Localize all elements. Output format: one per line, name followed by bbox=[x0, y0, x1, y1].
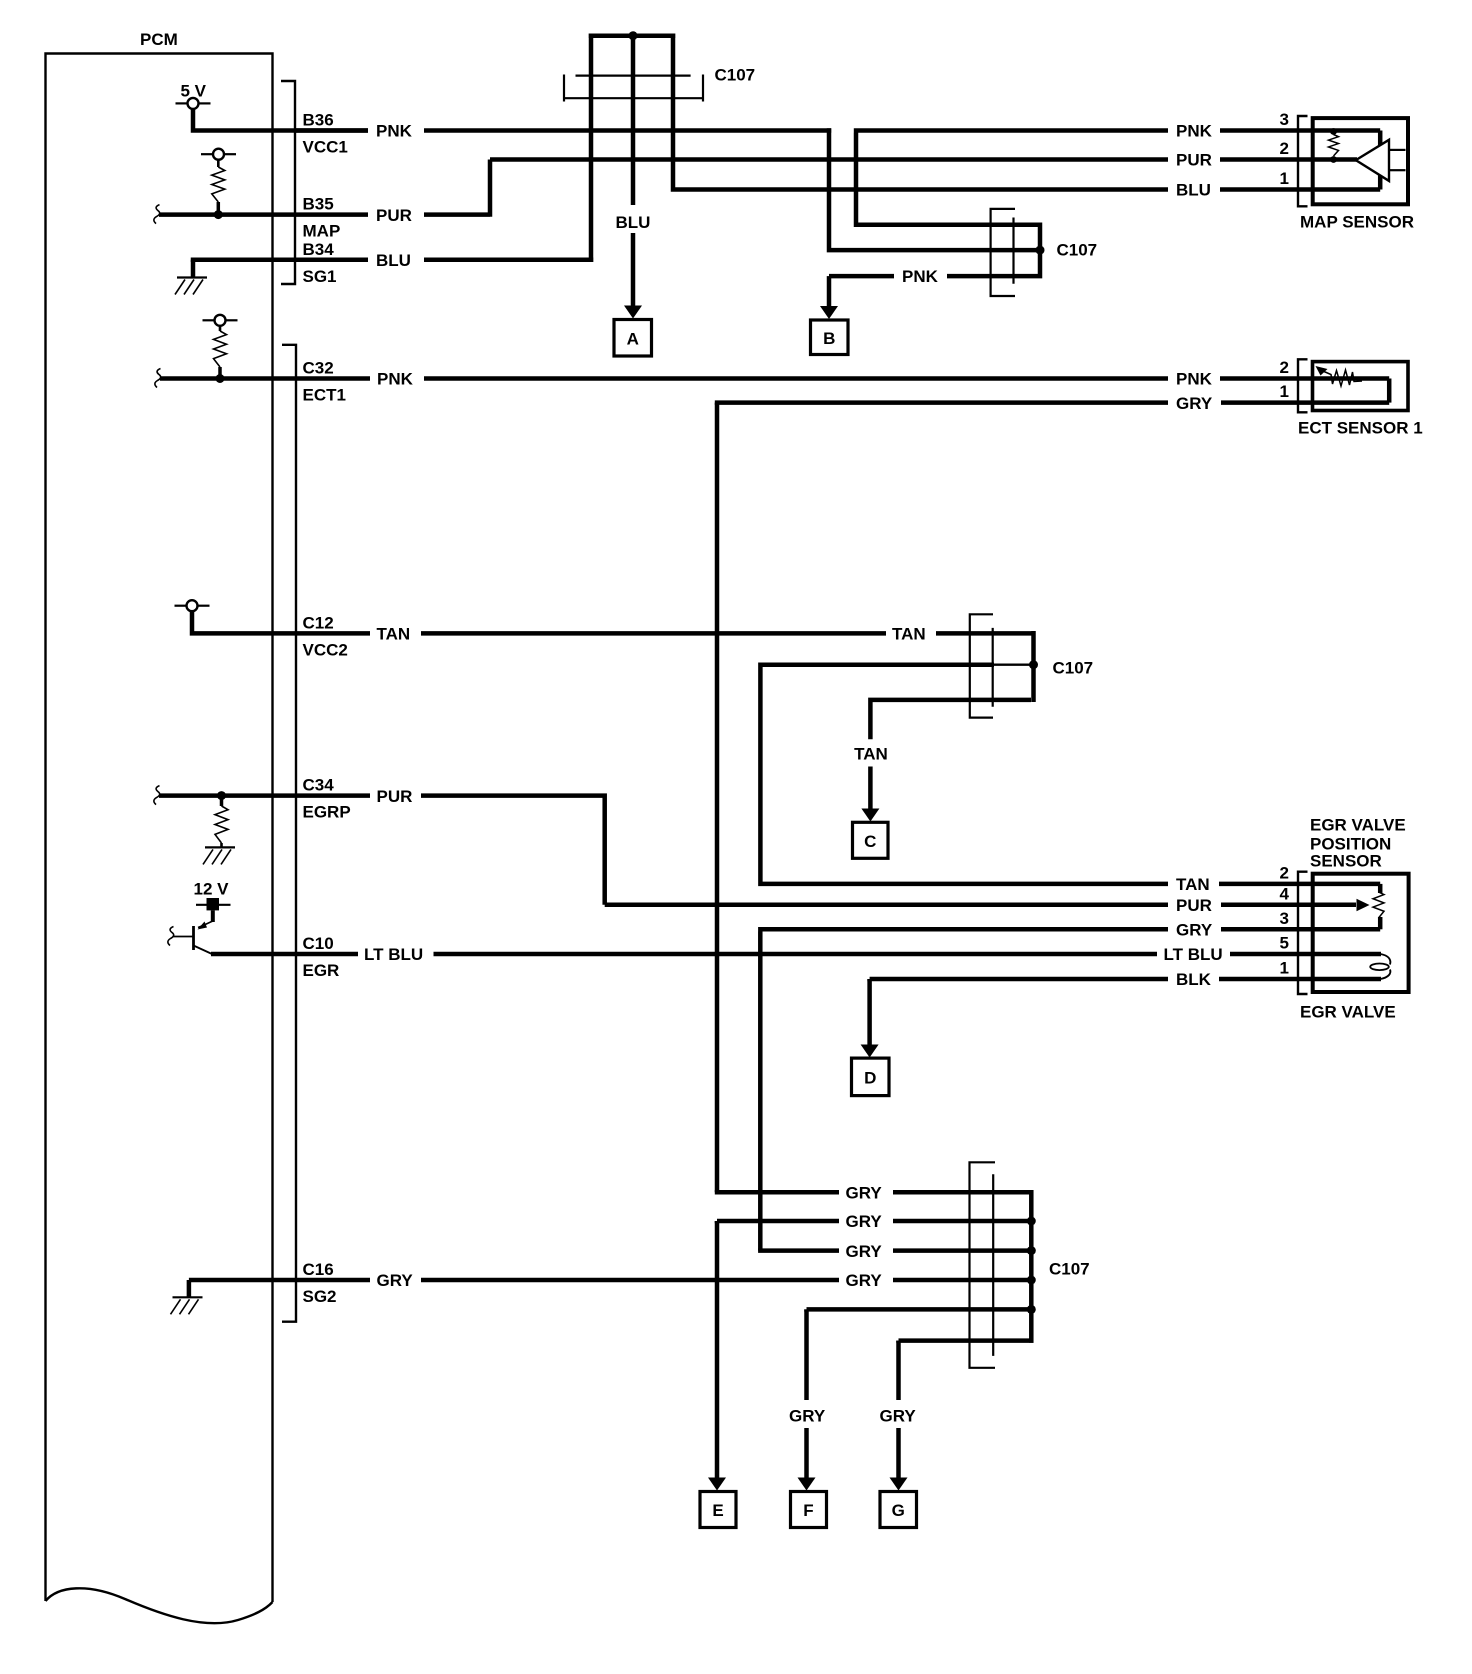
wire PNK splice B to connector bbox=[947, 274, 1014, 279]
wire PUR B35 rise bbox=[424, 160, 1168, 217]
supply circle C12 bbox=[175, 600, 210, 611]
label GRY splice2 bbox=[846, 1212, 883, 1231]
label TAN splice C bbox=[854, 745, 888, 764]
connector bracket MAP bbox=[1298, 116, 1308, 206]
pin number 1 MAP bbox=[1280, 169, 1289, 188]
wire-break squiggle C34 bbox=[154, 786, 160, 805]
svg-text:2: 2 bbox=[1280, 139, 1289, 158]
label TAN EGR bbox=[1176, 875, 1210, 894]
svg-text:PUR: PUR bbox=[1176, 896, 1212, 915]
junction dot C107-GRY 2 bbox=[1027, 1246, 1036, 1255]
EGR VALVE label line1 bbox=[1310, 816, 1406, 835]
wire-break squiggle C32 bbox=[155, 369, 161, 388]
terminal box B bbox=[811, 320, 849, 355]
label GRY EGR3 bbox=[1176, 921, 1213, 940]
MAP resistor dot top bbox=[1330, 128, 1337, 135]
wire-break squiggle B35 bbox=[154, 205, 160, 224]
wire BLU into MAP sensor bbox=[1220, 187, 1380, 192]
svg-text:TAN: TAN bbox=[377, 625, 411, 644]
svg-text:C12: C12 bbox=[303, 613, 334, 632]
12V label bbox=[194, 880, 230, 899]
svg-text:PNK: PNK bbox=[1176, 370, 1213, 389]
wire TAN into EGR sensor bbox=[1219, 882, 1380, 887]
label GRY C16 right bbox=[846, 1271, 883, 1290]
svg-text:GRY: GRY bbox=[846, 1183, 883, 1202]
junction dot C107-TAN bbox=[1029, 660, 1038, 669]
wire 5V to pin B36 bbox=[193, 108, 368, 131]
EGR sensor box bbox=[1313, 874, 1409, 992]
junction dot C107-GRY 4 bbox=[1027, 1305, 1036, 1314]
svg-text:C10: C10 bbox=[303, 934, 334, 953]
label LT BLU C10 bbox=[364, 945, 423, 964]
label BLU B34 bbox=[376, 251, 411, 270]
pin label C32 bbox=[303, 359, 334, 378]
connector C107 body left cap bbox=[563, 75, 565, 102]
resistor pull-up C32 bbox=[214, 326, 227, 375]
svg-text:1: 1 bbox=[1280, 959, 1289, 978]
ground lead B34 bbox=[191, 260, 196, 278]
svg-text:F: F bbox=[803, 1501, 813, 1520]
MAP internal riser bbox=[1378, 131, 1383, 190]
svg-text:SENSOR: SENSOR bbox=[1310, 852, 1382, 871]
label GRY ECT bbox=[1176, 394, 1213, 413]
transistor Q1 base lead bbox=[173, 936, 194, 938]
wire TAN to connector bbox=[936, 631, 1034, 636]
svg-text:BLU: BLU bbox=[376, 251, 411, 270]
label PNK ECT bbox=[1176, 370, 1213, 389]
svg-text:PUR: PUR bbox=[377, 787, 413, 806]
junction dot C32 bbox=[216, 374, 225, 383]
label PUR B35 bbox=[376, 206, 412, 225]
svg-text:GRY: GRY bbox=[846, 1212, 883, 1231]
wire TAN branch to EGR bbox=[760, 665, 1168, 884]
svg-text:5 V: 5 V bbox=[181, 82, 207, 101]
connector C107 body right cap bbox=[702, 75, 704, 102]
arrowhead D bbox=[861, 1045, 879, 1058]
svg-text:GRY: GRY bbox=[1176, 921, 1213, 940]
pin number 2 ECT bbox=[1280, 358, 1289, 377]
wire arrow to F bbox=[804, 1428, 809, 1478]
svg-text:TAN: TAN bbox=[854, 745, 888, 764]
svg-text:C107: C107 bbox=[1049, 1260, 1090, 1279]
terminal box C bbox=[853, 822, 889, 858]
label PUR EGR bbox=[1176, 896, 1212, 915]
PCM connector bracket C-pins bbox=[282, 345, 296, 1322]
label BLK EGR bbox=[1176, 970, 1212, 989]
svg-text:LT BLU: LT BLU bbox=[364, 945, 423, 964]
PCM connector bracket B-pins bbox=[281, 81, 295, 284]
svg-text:E: E bbox=[712, 1501, 723, 1520]
svg-text:MAP SENSOR: MAP SENSOR bbox=[1300, 212, 1414, 231]
svg-text:C107: C107 bbox=[1053, 659, 1094, 678]
wire PUR C34 path bbox=[421, 793, 1168, 904]
label GRY splice3 bbox=[846, 1242, 883, 1261]
connector C107-PNK right line bbox=[1012, 218, 1014, 284]
label PNK MAP bbox=[1176, 122, 1213, 141]
EGR VALVE label line2 bbox=[1310, 835, 1391, 854]
junction dot C107-PNK bbox=[1036, 246, 1045, 255]
svg-text:ECT SENSOR 1: ECT SENSOR 1 bbox=[1298, 419, 1423, 438]
connector C107 prong middle bbox=[631, 34, 636, 206]
MAP SENSOR label bbox=[1300, 212, 1414, 231]
label BLU MAP bbox=[1176, 181, 1211, 200]
wire arrow to A bbox=[631, 233, 636, 307]
pull-up source circle B35 bbox=[201, 149, 236, 160]
svg-text:EGR VALVE: EGR VALVE bbox=[1310, 816, 1406, 835]
svg-text:B34: B34 bbox=[303, 240, 335, 259]
svg-text:ECT1: ECT1 bbox=[303, 386, 346, 405]
label PNK B36 bbox=[376, 122, 413, 141]
5V supply symbol bbox=[176, 98, 211, 109]
wire arrow to D bbox=[867, 979, 872, 1045]
EGR VALVE bottom label bbox=[1300, 1002, 1396, 1021]
svg-text:GRY: GRY bbox=[789, 1406, 826, 1425]
svg-text:EGR: EGR bbox=[303, 961, 340, 980]
pin label VCC1 bbox=[303, 138, 348, 157]
connector C107-TAN mid stub bbox=[993, 664, 1034, 666]
svg-text:PNK: PNK bbox=[376, 122, 413, 141]
pin label C16 bbox=[303, 1260, 334, 1279]
pin label C10 bbox=[303, 934, 334, 953]
wire PNK into MAP sensor bbox=[1220, 128, 1380, 133]
EGR coil loop bbox=[1370, 964, 1389, 971]
wire GRY C16 to connector bbox=[893, 1278, 1031, 1283]
connector C107-TAN right line bbox=[992, 628, 994, 707]
pin label B36 bbox=[303, 111, 334, 130]
svg-text:C34: C34 bbox=[303, 776, 335, 795]
wire PNK B36 to label gap bbox=[295, 128, 368, 133]
svg-text:C107: C107 bbox=[1057, 241, 1098, 260]
ECT SENSOR 1 label bbox=[1298, 419, 1423, 438]
wire GRY splice5 to connector bbox=[807, 1309, 1032, 1311]
svg-text:1: 1 bbox=[1280, 382, 1289, 401]
terminal box E bbox=[700, 1492, 736, 1528]
pin label B34 bbox=[303, 240, 335, 259]
wire GRY ECT drop bbox=[715, 403, 720, 1193]
wire C34 internal bbox=[159, 793, 370, 798]
wire BLK EGR1 bbox=[870, 979, 1168, 981]
svg-text:GRY: GRY bbox=[377, 1271, 414, 1290]
svg-text:C16: C16 bbox=[303, 1260, 334, 1279]
wire BLU B34 to C107 bbox=[424, 258, 593, 263]
PCM module box bbox=[46, 54, 273, 1624]
label TAN C12 bbox=[377, 625, 411, 644]
svg-text:C: C bbox=[864, 832, 876, 851]
wire B34 internal bbox=[193, 258, 368, 263]
svg-text:SG2: SG2 bbox=[303, 1287, 337, 1306]
connector C107-GRY right line bbox=[992, 1174, 994, 1356]
pin label ECT1 bbox=[303, 386, 346, 405]
connector C107-GRY left bracket bbox=[970, 1162, 996, 1368]
junction dot C107-GRY 3 bbox=[1027, 1276, 1036, 1285]
svg-text:MAP: MAP bbox=[303, 222, 341, 241]
connector C107-GRY tie bracket bbox=[1029, 1190, 1034, 1343]
svg-text:VCC2: VCC2 bbox=[303, 640, 348, 659]
connector C107-PNK mid stub bbox=[1014, 248, 1041, 253]
connector bracket EGR bbox=[1298, 872, 1308, 994]
svg-text:3: 3 bbox=[1280, 110, 1289, 129]
ground lead C16 bbox=[187, 1280, 192, 1297]
label GRY G bbox=[880, 1406, 917, 1425]
junction dot C34 bbox=[217, 791, 226, 800]
svg-text:EGRP: EGRP bbox=[303, 803, 351, 822]
connector C107-TAN left bracket bbox=[970, 614, 993, 717]
pin label EGR bbox=[303, 961, 340, 980]
svg-text:A: A bbox=[627, 329, 639, 348]
svg-text:BLK: BLK bbox=[1176, 970, 1212, 989]
resistor pull-up B35 bbox=[212, 160, 225, 211]
label C107 middle bbox=[1053, 659, 1094, 678]
arrowhead A bbox=[624, 306, 642, 319]
connector C107 prong BLU-MAP bbox=[673, 34, 1168, 190]
junction dot C107-GRY 1 bbox=[1027, 1217, 1036, 1226]
label GRY F bbox=[789, 1406, 826, 1425]
connector C107 body top line bbox=[576, 74, 691, 76]
svg-text:G: G bbox=[892, 1501, 905, 1520]
EGR coil arc bbox=[1381, 954, 1391, 979]
5V label bbox=[181, 82, 207, 101]
ground C34 bbox=[203, 847, 235, 864]
svg-text:B36: B36 bbox=[303, 111, 334, 130]
wire LT BLU long bbox=[434, 952, 1158, 957]
svg-text:VCC1: VCC1 bbox=[303, 138, 348, 157]
EGR wiper arrowhead bbox=[1357, 899, 1370, 912]
svg-text:TAN: TAN bbox=[1176, 875, 1210, 894]
wire PNK into ECT bbox=[1220, 376, 1389, 381]
arrowhead B bbox=[820, 306, 838, 319]
pin number 3 MAP bbox=[1280, 110, 1289, 129]
wire arrow to B bbox=[827, 276, 832, 307]
terminal box A bbox=[614, 320, 652, 357]
pin number 1 EGR bbox=[1280, 959, 1289, 978]
EGR pot bottom lead bbox=[1378, 917, 1383, 929]
wire LT BLU into EGR bbox=[1230, 952, 1381, 957]
wire PNK C107 to MAP riser bbox=[854, 131, 1168, 225]
svg-text:BLU: BLU bbox=[616, 213, 651, 232]
wire TAN C12 long bbox=[421, 631, 886, 636]
pin label C34 bbox=[303, 776, 335, 795]
junction dot C107 top bbox=[629, 31, 638, 40]
label PNK C32 bbox=[377, 370, 414, 389]
label PUR MAP bbox=[1176, 151, 1212, 170]
wire PUR into MAP sensor bbox=[1220, 157, 1357, 162]
transistor Q1 body bbox=[192, 926, 195, 950]
wire F upper bbox=[804, 1309, 809, 1400]
pin label C12 bbox=[303, 613, 334, 632]
12V supply symbol bbox=[196, 898, 231, 910]
MAP buffer output stubs bbox=[1390, 150, 1406, 170]
svg-text:C107: C107 bbox=[715, 66, 756, 85]
label BLU splice A bbox=[616, 213, 651, 232]
svg-text:GRY: GRY bbox=[1176, 394, 1213, 413]
svg-text:C32: C32 bbox=[303, 359, 334, 378]
wire TAN branch to splice C bbox=[870, 700, 1031, 739]
ECT thermistor mark bbox=[1316, 366, 1363, 386]
label GRY splice1 bbox=[846, 1183, 883, 1202]
svg-text:B: B bbox=[823, 329, 835, 348]
svg-text:LT BLU: LT BLU bbox=[1164, 945, 1223, 964]
transistor Q1 collector lead bbox=[198, 910, 213, 929]
MAP sensor box bbox=[1313, 118, 1408, 204]
svg-text:PUR: PUR bbox=[376, 206, 412, 225]
label LT BLU EGR bbox=[1164, 945, 1223, 964]
wire arrow to C bbox=[868, 767, 873, 810]
pin number 1 ECT bbox=[1280, 382, 1289, 401]
wire GRY ECT horizontal bbox=[715, 400, 1168, 405]
wire arrow to E bbox=[715, 1221, 720, 1478]
arrowhead C bbox=[861, 809, 879, 822]
wire-break squiggle Q1 base bbox=[168, 927, 174, 946]
pin number 2 MAP bbox=[1280, 139, 1289, 158]
connector C107 prong BLU-B34 bbox=[589, 34, 594, 263]
connector C107-PNK tie bracket bbox=[1014, 225, 1041, 276]
pull-up source circle C32 bbox=[203, 315, 238, 326]
connector C107 top bar bbox=[589, 33, 675, 38]
wire GRY splice6 to connector bbox=[899, 1341, 1034, 1343]
svg-text:GRY: GRY bbox=[880, 1406, 917, 1425]
wire BLK into EGR bbox=[1219, 977, 1381, 982]
wire C32 internal bbox=[160, 376, 370, 381]
label PNK splice B bbox=[902, 267, 939, 286]
svg-text:12 V: 12 V bbox=[194, 880, 230, 899]
EGR pot top lead bbox=[1378, 884, 1383, 893]
pin number 5 EGR bbox=[1280, 934, 1289, 953]
MAP internal resistor bbox=[1329, 135, 1339, 157]
svg-text:4: 4 bbox=[1280, 885, 1290, 904]
wire PNK to splice B bbox=[829, 274, 894, 279]
svg-text:SG1: SG1 bbox=[303, 267, 337, 286]
arrowhead G bbox=[890, 1478, 908, 1491]
connector C107 body bottom line bbox=[564, 97, 703, 99]
svg-text:2: 2 bbox=[1280, 864, 1289, 883]
wire C12 internal bbox=[192, 611, 370, 634]
pin label EGRP bbox=[303, 803, 351, 822]
wire GRY splice2 to connector bbox=[717, 1221, 1031, 1223]
label GRY C16 bbox=[377, 1271, 414, 1290]
terminal box D bbox=[852, 1058, 890, 1096]
svg-text:1: 1 bbox=[1280, 169, 1289, 188]
pin number 4 EGR bbox=[1280, 885, 1290, 904]
wire PNK C32 long bbox=[424, 376, 1168, 381]
wire GRY into ECT bbox=[1221, 400, 1389, 405]
wire B35 internal bbox=[159, 212, 368, 217]
wire C10 internal bbox=[211, 952, 358, 957]
pin number 3 EGR bbox=[1280, 909, 1289, 928]
wire GRY into EGR bbox=[1221, 927, 1380, 932]
label PUR C34 bbox=[377, 787, 413, 806]
pin label MAP bbox=[303, 222, 341, 241]
resistor pull-down C34 bbox=[215, 796, 228, 848]
svg-text:PUR: PUR bbox=[1176, 151, 1212, 170]
wire PNK B36 to branch bbox=[424, 128, 831, 133]
pin label SG2 bbox=[303, 1287, 337, 1306]
terminal box F bbox=[791, 1492, 827, 1528]
connector C107-PNK left bracket bbox=[991, 209, 1015, 296]
svg-text:5: 5 bbox=[1280, 934, 1289, 953]
wire GRY C16 long bbox=[421, 1278, 839, 1283]
junction dot B35 bbox=[214, 210, 223, 219]
svg-text:3: 3 bbox=[1280, 909, 1289, 928]
PCM label bbox=[140, 30, 178, 49]
wire C16 internal bbox=[189, 1278, 370, 1283]
ground SG2 bbox=[171, 1297, 203, 1314]
ground SG1 bbox=[175, 278, 207, 295]
svg-text:TAN: TAN bbox=[892, 625, 926, 644]
svg-text:D: D bbox=[864, 1068, 876, 1087]
label C107 top bbox=[715, 66, 756, 85]
label C107 right bbox=[1057, 241, 1098, 260]
label TAN mid bbox=[892, 625, 926, 644]
arrowhead E bbox=[708, 1478, 726, 1491]
svg-text:PNK: PNK bbox=[377, 370, 414, 389]
MAP buffer triangle bbox=[1356, 140, 1389, 181]
svg-text:EGR VALVE: EGR VALVE bbox=[1300, 1002, 1396, 1021]
MAP resistor dot bottom bbox=[1330, 156, 1337, 163]
wire PNK branch down to C107 bbox=[829, 128, 1014, 250]
svg-text:PNK: PNK bbox=[902, 267, 939, 286]
EGR VALVE label line3 bbox=[1310, 852, 1382, 871]
svg-text:GRY: GRY bbox=[846, 1242, 883, 1261]
connector bracket ECT bbox=[1298, 359, 1308, 412]
svg-text:GRY: GRY bbox=[846, 1271, 883, 1290]
svg-text:PCM: PCM bbox=[140, 30, 178, 49]
terminal box G bbox=[880, 1492, 917, 1528]
ECT sensor box bbox=[1313, 362, 1409, 411]
EGR pot resistor bbox=[1373, 892, 1384, 918]
pin number 2 EGR bbox=[1280, 864, 1289, 883]
wire PUR into EGR sensor bbox=[1221, 903, 1356, 908]
pin label SG1 bbox=[303, 267, 337, 286]
arrowhead F bbox=[798, 1478, 816, 1491]
wire G upper bbox=[896, 1341, 901, 1400]
wire GRY splice3 to connector bbox=[758, 1248, 1031, 1253]
svg-text:B35: B35 bbox=[303, 195, 334, 214]
svg-text:PNK: PNK bbox=[1176, 122, 1213, 141]
transistor Q1 emitter lead bbox=[194, 946, 213, 955]
label C107 bottom bbox=[1049, 1260, 1090, 1279]
pin label B35 bbox=[303, 195, 334, 214]
wire GRY EGR3 path bbox=[758, 929, 1168, 1250]
svg-text:2: 2 bbox=[1280, 358, 1289, 377]
connector C107-TAN tie bracket bbox=[1031, 631, 1036, 702]
svg-text:BLU: BLU bbox=[1176, 181, 1211, 200]
ECT internal hook bbox=[1387, 379, 1392, 403]
pin label VCC2 bbox=[303, 640, 348, 659]
wire arrow to G bbox=[896, 1428, 901, 1478]
wire GRY splice1 to connector bbox=[715, 1190, 1034, 1195]
